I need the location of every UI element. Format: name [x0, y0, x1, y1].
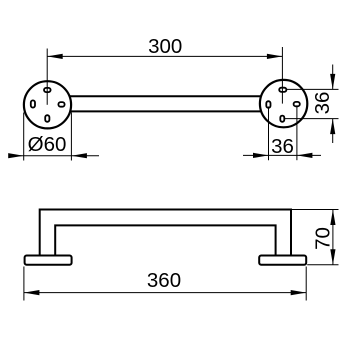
top view rail (bar between flanges): [70, 96, 262, 111]
svg-text:36: 36: [271, 135, 294, 158]
right flange screw slots: [266, 88, 300, 122]
left flange screw slots: [31, 88, 65, 122]
right wall plate (front view): [259, 256, 306, 265]
dimension line diameter 60 with arrows: [8, 153, 99, 158]
left flange (top view): [24, 81, 71, 128]
extension line left flange center: [46, 49, 48, 105]
extension lines height 70: [292, 210, 339, 265]
extension line right flange center: [281, 47, 283, 104]
front view rail outline: [40, 210, 291, 256]
svg-text:70: 70: [312, 227, 335, 250]
dimension line 70 with arrows: [330, 210, 335, 265]
left wall plate (front view): [25, 256, 72, 265]
dimension line 36 horizontal with arrows: [243, 153, 321, 158]
svg-text:36: 36: [311, 92, 334, 115]
extension lines hole spacing 36 vertical: [285, 89, 339, 118]
svg-text:360: 360: [147, 269, 181, 292]
svg-text:300: 300: [148, 35, 182, 58]
svg-text:Ø60: Ø60: [28, 133, 67, 156]
dimension line 300 with arrows: [47, 54, 282, 59]
extension lines diameter 60: [24, 113, 72, 161]
dimension line 360 with arrows: [24, 290, 306, 295]
dimension line 36 vertical with arrows: [330, 65, 335, 144]
extension lines hole spacing 36 horizontal: [269, 107, 297, 161]
right flange (top view): [260, 80, 307, 127]
extension lines overall width 360: [24, 267, 306, 301]
